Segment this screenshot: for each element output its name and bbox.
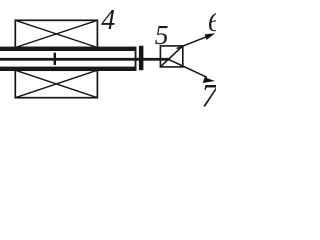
pump coil box bottom (crossed box) bbox=[15, 70, 97, 98]
svg-text:6: 6 bbox=[208, 6, 216, 37]
tube top wall bar bbox=[0, 47, 136, 51]
svg-text:5: 5 bbox=[155, 19, 169, 50]
tick mark on rod bbox=[54, 53, 56, 65]
pump coil box top (crossed box) bbox=[15, 20, 97, 47]
tube end thin cap bbox=[135, 47, 137, 71]
svg-text:7: 7 bbox=[201, 79, 216, 115]
svg-text:4: 4 bbox=[101, 5, 115, 36]
rod mid line bbox=[0, 58, 169, 61]
beam splitter cube 5 bbox=[160, 46, 182, 67]
output mirror thick bar bbox=[139, 46, 144, 70]
beam to 7 bbox=[168, 59, 215, 83]
tube bottom wall bar bbox=[0, 67, 136, 71]
beam to 6 bbox=[177, 33, 216, 48]
